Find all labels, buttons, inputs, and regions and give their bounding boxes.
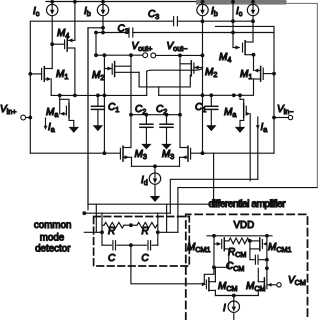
svg-text:Vin+: Vin+ bbox=[0, 104, 16, 116]
svg-text:common: common bbox=[34, 220, 72, 231]
svg-text:Ma: Ma bbox=[46, 107, 58, 119]
capacitor C3 lower bbox=[129, 28, 133, 37]
current source Ic right bbox=[247, 4, 258, 15]
svg-text:C: C bbox=[141, 253, 149, 264]
transistor M3 left bbox=[30, 146, 131, 166]
svg-text:Id: Id bbox=[141, 175, 148, 187]
wire C2 node bbox=[131, 113, 180, 117]
svg-text:CCM: CCM bbox=[226, 261, 244, 273]
transistor M4 left bbox=[52, 2, 75, 96]
transistor MCM right bbox=[258, 278, 276, 296]
capacitor C left loop bbox=[102, 241, 133, 250]
node right loop vertical bbox=[156, 213, 160, 245]
svg-text:MCM: MCM bbox=[246, 281, 266, 293]
ground Ma right bbox=[235, 127, 245, 133]
capacitor C right loop bbox=[131, 241, 158, 250]
wire W95L bbox=[51, 94, 147, 98]
transistor M1 left bbox=[30, 67, 52, 96]
transistor M2 right bbox=[180, 55, 203, 75]
wire miller left column bbox=[129, 55, 133, 147]
svg-text:Ma: Ma bbox=[224, 107, 236, 119]
svg-text:C1: C1 bbox=[108, 102, 119, 114]
annotation Ia left bbox=[44, 118, 48, 130]
svg-text:RCM: RCM bbox=[228, 247, 246, 259]
transistor M3 right bbox=[180, 146, 214, 166]
gray bar bbox=[196, 0, 286, 5]
capacitor C1 left bbox=[91, 95, 104, 125]
svg-text:C1: C1 bbox=[195, 102, 206, 114]
wire Ic-left column bbox=[50, 16, 54, 69]
terminal Vout- bbox=[151, 53, 156, 58]
transistor Ma left bbox=[60, 95, 74, 127]
svg-text:VDD: VDD bbox=[234, 220, 255, 231]
transistor MCM1 left bbox=[212, 236, 229, 269]
wire M2 cross gate line bbox=[147, 68, 203, 72]
terminal Vout+ bbox=[143, 53, 148, 58]
transistor M2 left bbox=[104, 55, 139, 76]
resistor R left bbox=[102, 222, 133, 228]
wire Ib-left column bbox=[101, 16, 105, 35]
terminal VCM bbox=[277, 283, 281, 287]
wire W95R bbox=[159, 79, 254, 97]
wire miller right column bbox=[178, 55, 182, 146]
svg-text:M1: M1 bbox=[240, 69, 252, 81]
wire CM output bbox=[131, 245, 204, 284]
svg-text:MCM1: MCM1 bbox=[268, 242, 292, 254]
wire VDD rail diffamp bbox=[207, 234, 272, 238]
capacitor C2 right bbox=[160, 115, 173, 144]
wire sense bus upper bbox=[88, 203, 214, 205]
wire rail junction dots bbox=[50, 0, 255, 4]
ground C2 right bbox=[161, 144, 171, 150]
wire diffamp tail bbox=[215, 294, 258, 298]
svg-text:M3: M3 bbox=[162, 149, 174, 161]
capacitor C1 right bbox=[205, 95, 218, 125]
wire C vin+ top bbox=[30, 19, 255, 153]
wire sense right 2 bbox=[158, 3, 317, 232]
wire diffamp mid node bbox=[214, 267, 267, 281]
wire vout+ sense corner bbox=[88, 28, 103, 210]
wire sense right 1 bbox=[170, 117, 259, 213]
svg-text:Ic: Ic bbox=[33, 6, 40, 18]
wire sense bus lower bbox=[82, 211, 170, 215]
svg-text:MCM1: MCM1 bbox=[187, 242, 211, 254]
svg-text:Vout−: Vout− bbox=[167, 41, 188, 53]
svg-text:C2: C2 bbox=[135, 104, 146, 116]
svg-text:C: C bbox=[108, 253, 116, 264]
svg-text:Ib: Ib bbox=[84, 6, 91, 18]
wire M3R gate to Vin- corner bbox=[214, 152, 274, 154]
svg-text:Vin−: Vin− bbox=[277, 104, 293, 116]
terminal Vin- bbox=[274, 115, 293, 119]
ground C1 right bbox=[206, 125, 216, 131]
current source Id bbox=[149, 166, 160, 196]
svg-text:C3: C3 bbox=[118, 24, 129, 36]
svg-text:M2: M2 bbox=[205, 67, 217, 79]
svg-text:C3: C3 bbox=[148, 9, 159, 21]
svg-text:Ib: Ib bbox=[211, 6, 218, 18]
capacitor C3 top bbox=[174, 17, 178, 26]
wire vin- column bbox=[216, 26, 276, 153]
transistor M1 right bbox=[254, 55, 276, 81]
current source I tail bbox=[228, 296, 239, 320]
svg-text:R: R bbox=[142, 226, 149, 237]
wire M2R gate column lower bbox=[202, 68, 204, 154]
transistor M4 right bbox=[233, 2, 255, 57]
svg-text:M1: M1 bbox=[56, 69, 68, 81]
svg-text:VCM: VCM bbox=[288, 275, 306, 287]
wire MCM1R drain column bbox=[265, 243, 269, 271]
svg-text:R: R bbox=[108, 226, 115, 237]
svg-text:differential amplifier: differential amplifier bbox=[209, 199, 287, 210]
wire Ma right diode column bbox=[249, 114, 251, 181]
transistor MCM1 right bbox=[250, 236, 268, 251]
svg-text:detector: detector bbox=[35, 244, 71, 255]
svg-text:I: I bbox=[223, 303, 226, 314]
ground C1 left bbox=[93, 125, 103, 131]
svg-text:M4: M4 bbox=[57, 28, 69, 40]
svg-text:mode: mode bbox=[40, 232, 65, 243]
svg-text:Ic: Ic bbox=[236, 6, 243, 18]
svg-text:Vout+: Vout+ bbox=[132, 41, 153, 53]
wire M3 tail bbox=[132, 164, 180, 168]
svg-text:M2: M2 bbox=[92, 70, 104, 82]
node left loop vertical bbox=[100, 213, 104, 245]
current source Ib left bbox=[97, 4, 108, 15]
ground C2 left bbox=[141, 144, 151, 150]
wire vout+ node vertical bbox=[95, 33, 97, 56]
wire M2L gate column lower bbox=[103, 69, 205, 156]
svg-text:Ia: Ia bbox=[48, 122, 55, 134]
wire Ib right column bbox=[202, 16, 204, 56]
terminal Vin+ bbox=[21, 115, 30, 120]
transistor MCM left bbox=[206, 278, 215, 296]
resistor RCM bbox=[229, 238, 252, 244]
wire sense left SL-B down bbox=[87, 28, 89, 204]
svg-text:C2: C2 bbox=[156, 104, 167, 116]
ground Id bbox=[150, 196, 160, 202]
VDD rail top bbox=[46, 0, 286, 5]
wire M3R gate branch down bbox=[213, 153, 215, 204]
wire upper bus left drop bbox=[95, 204, 97, 232]
svg-text:M3: M3 bbox=[135, 149, 147, 161]
box differential amplifier dashed bbox=[186, 214, 308, 320]
wire vout- bbox=[156, 54, 205, 58]
wire sense left SL-A bbox=[84, 231, 102, 233]
svg-text:M4: M4 bbox=[219, 52, 231, 64]
wire M2 drain bus bbox=[139, 71, 190, 95]
wire MCM left gate elbow bbox=[202, 267, 214, 286]
box common mode detector dashed bbox=[94, 217, 190, 267]
current source Ib right bbox=[197, 4, 208, 15]
resistor R right bbox=[131, 222, 158, 228]
svg-text:MCM: MCM bbox=[218, 281, 238, 293]
svg-text:Ia: Ia bbox=[261, 122, 268, 134]
capacitor C2 left bbox=[140, 115, 153, 144]
transistor Ma right bbox=[240, 95, 250, 127]
current source Ic left bbox=[47, 4, 58, 15]
ground Ma left bbox=[69, 127, 79, 133]
wire vout+ bbox=[94, 53, 143, 57]
wire upper bus right drop bbox=[166, 204, 168, 232]
capacitor CCM bbox=[250, 241, 269, 264]
wire vin+ column bbox=[28, 72, 32, 119]
wire B lower feedforward bbox=[94, 31, 274, 35]
